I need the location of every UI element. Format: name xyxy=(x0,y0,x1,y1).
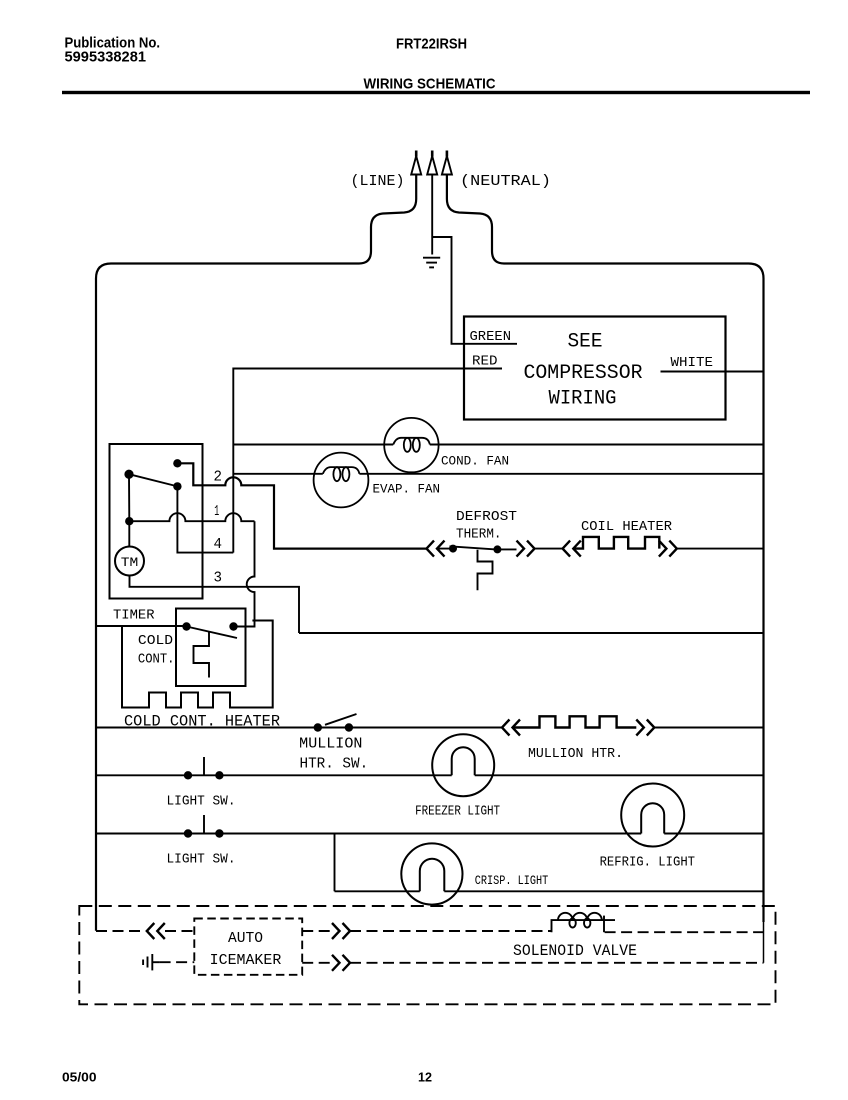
light switch 2 plunger xyxy=(203,815,205,833)
wire freezer light row xyxy=(96,774,764,776)
arrow terminal NEUTRAL xyxy=(442,151,452,175)
svg-text:MULLION HTR.: MULLION HTR. xyxy=(528,746,623,762)
wire defrost switch segment xyxy=(437,548,454,550)
svg-text:COIL HEATER: COIL HEATER xyxy=(581,519,673,535)
AUTO ICEMAKER box (dashed) xyxy=(194,919,302,975)
cold control contact dots xyxy=(182,622,190,630)
defrost thermostat sensor squiggle xyxy=(478,550,493,591)
wire NEUTRAL lead into outer box top + right bus edge xyxy=(447,175,764,923)
svg-text:2: 2 xyxy=(214,469,223,486)
wire pin1 branch to cold control right contact xyxy=(234,621,255,627)
wire mullion heater row xyxy=(96,727,502,729)
solenoid valve coil xyxy=(552,913,616,932)
svg-text:DEFROST: DEFROST xyxy=(456,509,517,525)
wire ground tee to compressor GREEN terminal xyxy=(432,237,517,344)
wire upper output to solenoid (dashed) xyxy=(350,930,552,932)
ground symbol xyxy=(423,258,440,268)
resistor COIL HEATER xyxy=(573,537,659,549)
wire right bus lower thin extension xyxy=(763,922,765,963)
svg-text:THERM.: THERM. xyxy=(456,527,502,543)
defrost thermostat arm xyxy=(450,546,498,549)
lamp REFRIG. LIGHT xyxy=(621,784,684,847)
timer contact dot lower xyxy=(173,482,181,490)
svg-text:AUTO: AUTO xyxy=(228,931,263,947)
wire branch to crisper light row xyxy=(334,834,336,892)
timer box xyxy=(110,444,203,599)
svg-text:COND. FAN: COND. FAN xyxy=(441,453,509,468)
wire plug to icemaker box (dashed) xyxy=(160,961,195,963)
wire mullion heater to right bus xyxy=(654,727,763,729)
wire coil heater to right bus xyxy=(677,548,764,550)
wire pin1 vertical with hop over pin3 wire xyxy=(247,521,273,620)
svg-text:CONT.: CONT. xyxy=(138,651,175,667)
svg-text:FRT22IRSH: FRT22IRSH xyxy=(396,36,467,53)
wire crisper light row (bottom bus) xyxy=(335,890,764,892)
svg-text:12: 12 xyxy=(418,1070,432,1085)
chevron pair left of mullion heater xyxy=(502,720,520,736)
compressor box SEE COMPRESSOR WIRING xyxy=(464,317,726,420)
svg-text:(LINE): (LINE) xyxy=(351,173,405,190)
svg-text:SEE: SEE xyxy=(568,331,603,354)
timer junction dot pin1 xyxy=(125,517,133,525)
chevron pair on icemaker feed xyxy=(147,923,165,939)
wire refrigerator light row xyxy=(96,833,764,835)
svg-text:EVAP. FAN: EVAP. FAN xyxy=(373,481,441,496)
mullion switch arm xyxy=(325,714,357,725)
arrow terminal center (ground) xyxy=(427,151,437,175)
timer contact dot upper xyxy=(173,459,181,467)
wire icemaker lower output (dashed) xyxy=(302,962,331,964)
svg-text:ICEMAKER: ICEMAKER xyxy=(210,953,282,969)
light switch 2 dots xyxy=(184,829,192,837)
svg-text:REFRIG. LIGHT: REFRIG. LIGHT xyxy=(600,855,695,871)
wire RED lead from compressor to timer feed xyxy=(233,369,502,553)
dashed icemaker enclosure box xyxy=(79,906,775,1004)
svg-text:COLD: COLD xyxy=(138,633,173,649)
svg-text:WIRING SCHEMATIC: WIRING SCHEMATIC xyxy=(364,76,496,93)
wire evaporator fan row xyxy=(233,473,322,475)
chevron pair right of mullion heater xyxy=(636,720,654,736)
motor COND. FAN xyxy=(384,418,438,472)
svg-text:HTR. SW.: HTR. SW. xyxy=(300,756,369,773)
cold control heater outline with teeth xyxy=(122,621,273,708)
svg-text:3: 3 xyxy=(214,570,223,587)
wire LINE lead into outer box top + left bus edge xyxy=(96,175,416,931)
chevron pair left of defrost thermostat xyxy=(427,541,445,557)
wire timer pin 3 from TM to right bus xyxy=(130,576,300,634)
svg-text:MULLION: MULLION xyxy=(299,736,362,753)
svg-text:TM: TM xyxy=(121,555,139,570)
header rule xyxy=(62,91,810,94)
defrost thermostat contact dots xyxy=(449,545,457,553)
svg-text:GREEN: GREEN xyxy=(470,329,512,345)
water fill plug symbol xyxy=(143,954,160,970)
wire timer pin 1 row with hops xyxy=(129,513,254,521)
svg-text:05/00: 05/00 xyxy=(62,1070,97,1085)
wire left bus to icemaker (dashed) xyxy=(96,930,145,932)
light switch 1 dots xyxy=(184,771,192,779)
light switch 1 plunger xyxy=(203,757,205,775)
wire lower output to right bus (dashed) xyxy=(350,962,764,964)
wire timer pin 4 row xyxy=(177,486,233,552)
wire timer pivot to TM motor xyxy=(128,474,130,547)
motor EVAP. FAN xyxy=(314,453,369,508)
cold control sensor squiggle xyxy=(194,631,210,678)
lamp FREEZER LIGHT xyxy=(432,734,494,796)
svg-text:CRISP. LIGHT: CRISP. LIGHT xyxy=(475,873,549,888)
wire icemaker upper output (dashed) xyxy=(302,930,331,932)
chevron pair right of defrost thermostat xyxy=(517,541,535,557)
arrow terminal LINE xyxy=(411,151,421,175)
wire solenoid to right bus (dashed) xyxy=(605,931,764,933)
lamp CRISP. LIGHT xyxy=(401,843,462,904)
cold control switch arm xyxy=(187,627,238,639)
chevron pair on upper output xyxy=(332,923,350,939)
wire condenser fan row xyxy=(233,444,393,446)
svg-text:COMPRESSOR: COMPRESSOR xyxy=(524,362,643,385)
cold control box xyxy=(176,609,246,687)
timer switch arm xyxy=(129,474,180,487)
timer motor TM xyxy=(115,547,144,576)
wire left bus to cold control xyxy=(96,625,187,627)
svg-text:FREEZER LIGHT: FREEZER LIGHT xyxy=(415,803,500,819)
svg-text:1: 1 xyxy=(214,503,219,520)
svg-text:4: 4 xyxy=(214,536,223,553)
mullion switch dots xyxy=(314,723,322,731)
wire defrost to coil heater xyxy=(497,548,562,551)
wire center ground lead xyxy=(431,175,433,255)
resistor MULLION HTR. xyxy=(513,716,637,727)
svg-text:WIRING: WIRING xyxy=(549,388,617,411)
chevron pair right of coil heater xyxy=(659,541,677,557)
svg-text:WHITE: WHITE xyxy=(671,355,714,371)
svg-text:LIGHT SW.: LIGHT SW. xyxy=(167,794,236,810)
svg-text:(NEUTRAL): (NEUTRAL) xyxy=(460,173,551,190)
wire timer pin 2 to defrost row xyxy=(177,463,426,548)
timer switch pivot dot xyxy=(124,470,133,479)
svg-text:5995338281: 5995338281 xyxy=(65,49,147,66)
svg-text:TIMER: TIMER xyxy=(113,608,155,624)
chevron pair left of coil heater xyxy=(563,541,581,557)
wire WHITE lead from compressor to right bus xyxy=(661,371,764,373)
chevron pair on lower output xyxy=(332,955,350,971)
svg-text:RED: RED xyxy=(472,354,498,370)
svg-text:LIGHT SW.: LIGHT SW. xyxy=(167,852,236,868)
wire chevrons to icemaker box (dashed) xyxy=(165,930,194,932)
svg-text:SOLENOID VALVE: SOLENOID VALVE xyxy=(513,942,637,960)
